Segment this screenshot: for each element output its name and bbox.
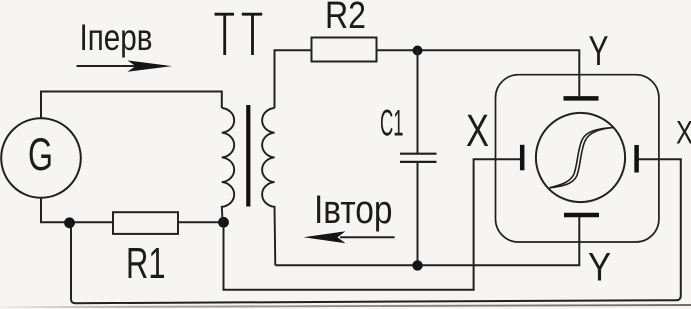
- node junction dot left (G / R1 / X-plate net): [64, 217, 75, 228]
- svg-text:G: G: [28, 129, 53, 180]
- bottom page frame line: [0, 305, 691, 307]
- svg-text:Iвтор: Iвтор: [314, 188, 393, 232]
- hysteresis loop trace on screen: [550, 128, 614, 188]
- CRT screen circle: [536, 113, 625, 202]
- capacitor C1 plates: [400, 153, 437, 155]
- node junction dot top (R2 / C1 / Y-plate net): [413, 46, 423, 56]
- transformer TT core: [246, 105, 250, 207]
- wire: R2 to top Y plate: [377, 50, 580, 96]
- node junction dot bottom (secondary / C1 / Y-plate net): [412, 260, 422, 270]
- svg-text:Y: Y: [589, 27, 609, 74]
- oscilloscope U1 (CRT) body: [496, 75, 659, 242]
- resistor R1: [113, 212, 178, 234]
- wire: right junction down, across, up to left X plate: [224, 159, 521, 290]
- svg-text:R2: R2: [325, 0, 366, 37]
- capacitor C1 leads: [417, 51, 419, 154]
- transformer TT primary winding: [222, 108, 234, 222]
- arrow Iперв (primary current direction): [77, 65, 141, 67]
- deflection plate right X: [634, 145, 639, 173]
- arrow Iвтор (secondary current direction): [340, 236, 395, 238]
- svg-text:C1: C1: [380, 101, 404, 143]
- wire: secondary bottom rail to bottom Y plate: [275, 217, 579, 265]
- svg-text:X: X: [676, 115, 691, 151]
- wire: generator top lead to transformer primary feed: [41, 92, 222, 120]
- deflection plate bottom Y: [564, 213, 599, 218]
- deflection plate top Y: [564, 96, 599, 101]
- node junction dot right (R1 / primary winding / X-plate net): [218, 217, 229, 228]
- generator G1 circle: [1, 118, 81, 198]
- wire: left junction down, bottom rail, up to right X plate: [71, 159, 681, 303]
- resistor R2: [312, 38, 377, 62]
- svg-text:Y: Y: [588, 246, 611, 290]
- deflection plate left X: [520, 145, 525, 171]
- svg-text:X: X: [466, 105, 489, 156]
- svg-text:Iперв: Iперв: [80, 17, 153, 58]
- wire: generator bottom lead and R1 rail: [41, 198, 224, 222]
- transformer TT secondary winding: [262, 108, 275, 265]
- svg-text:R1: R1: [126, 240, 166, 288]
- wire: secondary top feed to R2: [275, 50, 313, 108]
- label TT (hand drawn tees): [215, 14, 263, 55]
